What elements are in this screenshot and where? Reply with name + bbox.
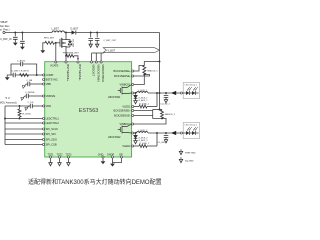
pin SPI_SDO [43, 138, 45, 140]
svg-text:BCK1SENSE-: BCK1SENSE- [114, 74, 131, 78]
diode D_BCK_2 [134, 133, 138, 138]
svg-text:SPI_SDI: SPI_SDI [46, 132, 56, 136]
junction R_LED0 tap [19, 105, 21, 107]
pin LEDCTRL1 [43, 117, 45, 119]
wire RBUCK_2 top feed [153, 109, 162, 111]
junction C_BAT_IN b [21, 32, 23, 34]
ground GND pin [101, 161, 106, 164]
junction C_BST b [96, 32, 98, 34]
transistor Q_BST channel bar [61, 38, 63, 48]
LED D2b arrows [193, 128, 197, 131]
wire RBUCK_2 stub top [161, 109, 163, 112]
junction switch node [65, 32, 67, 34]
wire PWR GND stem [180, 149, 182, 151]
wire zener bottom to source [66, 46, 70, 48]
wire GND stub [102, 158, 104, 161]
pin LBCKSW1 [132, 92, 134, 94]
wire VGATE riser [55, 43, 57, 62]
wire LED string 1 internal [183, 92, 199, 94]
pin VINBCK2 [132, 123, 134, 125]
wire GNDP+EP tie [113, 158, 122, 162]
connector arrow LED string 1 [171, 91, 176, 95]
transistor Q_BST gate bar [59, 39, 61, 47]
wire SPI_SCLK row [5, 128, 43, 130]
power ground symbol [179, 151, 182, 154]
diode D_BST [72, 30, 76, 34]
wire BCK1SENSE+ to RBUCK_1 top [134, 66, 145, 72]
svg-text:C_BST_OUT: C_BST_OUT [104, 40, 118, 42]
pin SPI_CSB [43, 143, 45, 145]
connector socket LED string 1 [180, 92, 182, 94]
junction C_BAT_IN a [14, 32, 16, 34]
junction VLED2 stub [156, 132, 158, 134]
capacitor C_LED_1 [164, 95, 169, 97]
svg-text:VGATE: VGATE [50, 65, 59, 68]
pin TST3 [67, 156, 69, 158]
wire inductor to switch node [65, 32, 72, 34]
ground arrow C_BST a [89, 44, 92, 47]
capacitor C_DRIVE [26, 94, 28, 98]
capacitor C_BST a [88, 38, 93, 40]
wire TST3 stub [67, 158, 69, 163]
resistor PRSENSE_BST [66, 54, 74, 57]
wire VBOOST pin riser [91, 53, 93, 62]
LED-String 1 box [183, 83, 199, 99]
wire VBAT bus [5, 32, 52, 34]
svg-text:LEDCTRL2: LEDCTRL2 [46, 121, 60, 125]
wire LEDCTRL2 row [5, 122, 43, 124]
svg-text:Pol. Prot.): Pol. Prot.) [0, 28, 10, 32]
svg-text:R_AUX_2: R_AUX_2 [139, 139, 149, 142]
svg-text:SPI_CSB: SPI_CSB [46, 143, 57, 147]
wire TST1 stub [50, 158, 52, 163]
capacitor C_BST b [95, 38, 100, 40]
wire cap a to ground [14, 39, 16, 42]
pin VDRIVE [43, 95, 45, 97]
wire C_BST2 branch left [11, 64, 21, 75]
wire RBUCK_2 bottom to VINBCK2 [134, 118, 166, 124]
svg-text:V_BST: V_BST [108, 50, 116, 53]
svg-text:C_BST1: C_BST1 [12, 71, 21, 73]
svg-text:RPG_BST: RPG_BST [44, 38, 55, 40]
test point arrow TST2 [58, 163, 61, 166]
svg-text:BCK2SENSE+: BCK2SENSE+ [114, 109, 132, 113]
test point arrow TST3 [67, 163, 70, 166]
transistor Q_BST body stub [62, 42, 66, 44]
wire LED string 2 internal [183, 132, 199, 134]
wire cap b to ground [21, 43, 23, 46]
wire connector 2 tail [176, 132, 180, 134]
ground input cap a [13, 43, 18, 46]
wire VLED1 pin to resistor [134, 106, 139, 108]
ground COMP network [5, 77, 10, 80]
pin BCK1SENSE- [132, 75, 134, 77]
wire gate node to gate [56, 42, 60, 44]
pin VBOOSTBCK [100, 61, 102, 63]
wire LEDCTRL1 row [5, 118, 43, 120]
svg-text:VBAT: VBAT [0, 20, 8, 24]
wire LED2 feed [148, 132, 171, 134]
pin BCK2SENSE+ [132, 109, 134, 111]
junction bus LEDCTRL1 [4, 118, 6, 120]
svg-text:VDD: VDD [46, 104, 52, 108]
net flag V_BST [103, 48, 159, 53]
capacitor C_BAT_IN a [13, 37, 18, 39]
junction COMP parallel [36, 74, 38, 76]
svg-text:VBB: VBB [46, 82, 51, 86]
wire C_BST a lead [90, 33, 92, 38]
pin VLED2 [132, 145, 134, 147]
wire SPI_CSB row [5, 144, 43, 146]
arrow into BSTSENSE- [77, 58, 79, 60]
pin VBOOSTMIN [95, 61, 97, 63]
ground arrow VBB diag [24, 84, 26, 86]
junction VLED1 stub [156, 92, 158, 94]
ground arrow VDD diag [27, 106, 29, 108]
LED D2a [186, 131, 189, 135]
wire C_BST a to ground [90, 40, 92, 44]
inductor L_BCK_2 [137, 132, 149, 133]
pin BCK2SENSE- [132, 114, 134, 116]
wire BCK2SENSE- wire [134, 115, 153, 117]
wire C_LED_2 to ground [165, 137, 167, 139]
capacitor C_BB [28, 82, 30, 86]
pin TST2 [58, 156, 60, 158]
pin VBB [43, 83, 45, 85]
junction rail RBUCK_2 [159, 109, 161, 111]
wire COMP row right [15, 74, 42, 76]
svg-text:C_DRIVE: C_DRIVE [25, 92, 35, 94]
wire 5V to VDD row [5, 105, 30, 107]
wire RBUCK_1 feed from rail [144, 62, 159, 66]
wire LBCKSW1 pin to inductor [134, 92, 137, 94]
LED D1b arrows [193, 88, 197, 91]
svg-text:C1_LED_1: C1_LED_1 [160, 103, 171, 105]
ground arrow C_LED_2 [164, 140, 167, 143]
wire 5V bus vertical [4, 106, 6, 145]
svg-text:COMP: COMP [46, 73, 54, 77]
transistor Q_BST drain stub [62, 33, 66, 40]
input terminal [3, 31, 5, 33]
wire Sig GND stem [180, 157, 182, 159]
ground arrow C_BST b [96, 44, 99, 47]
svg-text:SPI_SCLK: SPI_SCLK [46, 127, 59, 131]
LED D1a arrows [187, 88, 191, 91]
wire C_BST b lead [96, 33, 98, 38]
wire LED1 feed [148, 92, 171, 94]
wire cap C_BAT_IN b lead [21, 33, 23, 41]
wire VBB cap stub [26, 83, 28, 85]
svg-text:适配得新和TANK300系马大灯随动转向DEMO配置: 适配得新和TANK300系马大灯随动转向DEMO配置 [28, 178, 162, 186]
inductor L_BST [52, 31, 64, 33]
junction rail RBUCK_1 [159, 61, 161, 63]
svg-text:VDRIVE: VDRIVE [46, 94, 56, 98]
connector arrow LED string 2 [171, 131, 176, 135]
pin LBCKSW2 [132, 132, 134, 134]
LED D1a [186, 91, 189, 95]
pin VLED1 [132, 105, 134, 107]
svg-text:LED-String 1: LED-String 1 [185, 84, 198, 87]
LED D2a arrows [187, 128, 191, 131]
wire COMP row left [11, 74, 13, 76]
capacitor C_BAT_IN b [20, 41, 25, 43]
inductor L_BCK_1 [137, 92, 149, 93]
capacitor C_DD [30, 104, 32, 108]
capacitor C_LED_2 [164, 135, 169, 137]
ground arrow D_BCK_2 [134, 141, 137, 144]
wire R_LED0 top stub [19, 106, 21, 109]
pin LEDCTRL2 [43, 122, 45, 124]
wire VDRIVE cap stub [25, 95, 27, 97]
svg-text:PRSENSE_BST: PRSENSE_BST [63, 53, 80, 55]
ground RPG_BST [40, 50, 45, 53]
wire BCK1SENSE- to RBUCK_1 bottom [134, 75, 150, 77]
diode D_BCK_1 [134, 93, 138, 98]
wire sense link to flag [92, 52, 104, 54]
svg-text:EST563: EST563 [79, 108, 98, 114]
wire RBUCK_2 loop left [153, 111, 162, 119]
svg-text:C1_LED_2: C1_LED_2 [158, 142, 169, 144]
svg-text:LBCKSW1: LBCKSW1 [108, 95, 121, 99]
test point arrow TST1 [49, 163, 52, 166]
svg-text:LBCKSW2: LBCKSW2 [108, 135, 121, 139]
wire R_LED0 bottom stub [19, 117, 21, 119]
capacitor C_BST1 [13, 73, 15, 77]
resistor R_VLED_2 [139, 145, 147, 148]
pin VDD [43, 105, 45, 107]
junction C_LED_1 [165, 92, 167, 94]
pin EP [120, 156, 122, 158]
junction R_LED0 bottom [19, 118, 21, 120]
junction D_BCK_1 [135, 92, 137, 94]
svg-text:C_BST2: C_BST2 [17, 60, 26, 62]
wire C_BST2 branch right [23, 64, 37, 75]
svg-text:VLED1: VLED1 [122, 105, 131, 109]
svg-text:RBUCK_2: RBUCK_2 [165, 114, 176, 116]
pin VGATE [55, 61, 57, 63]
ground arrow D_BCK_1 [134, 101, 137, 104]
svg-text:R_AUX_1: R_AUX_1 [139, 99, 149, 102]
svg-text:(MCU Assumed): (MCU Assumed) [0, 101, 17, 104]
pin TST1 [49, 156, 51, 158]
wire RBUCK_1 bottom to VINBCK1 [134, 75, 145, 85]
ground arrow C_LED_1 [164, 100, 167, 103]
wire RPG_BST left to ground [43, 43, 45, 50]
wire VBB row [30, 83, 43, 85]
wire VDRIVE row [28, 95, 42, 97]
svg-text:L_BST: L_BST [52, 27, 60, 30]
junction RBUCK_1 bottom [143, 74, 145, 76]
wire VBOOSTMIN pin riser [95, 53, 97, 62]
pin GND [102, 156, 104, 158]
diode D_BCK_1 bar [134, 99, 138, 101]
ground arrow VDRIVE diag [23, 96, 25, 98]
wire SPI_SDI row [5, 133, 43, 135]
svg-text:BSTSENSE+: BSTSENSE+ [66, 64, 70, 81]
wire VBOOSTBCK pin riser [100, 53, 102, 62]
signal ground symbol [179, 159, 182, 162]
wire C_BST b to ground [96, 40, 98, 44]
svg-text:Sig GND: Sig GND [185, 161, 194, 163]
svg-text:SPI_SDO: SPI_SDO [46, 138, 57, 142]
svg-text:C_BAT_IN: C_BAT_IN [0, 38, 12, 41]
wire GNDP ground stem [112, 163, 114, 164]
svg-text:BCK1SENSE+: BCK1SENSE+ [114, 69, 132, 73]
svg-text:PWR GND: PWR GND [185, 153, 196, 155]
internal buck switch 1 [118, 85, 132, 95]
svg-text:BCK2SENSE-: BCK2SENSE- [114, 114, 131, 118]
wire C_LED_2 lead [165, 133, 167, 134]
junction rail LED1 crossing [159, 92, 161, 94]
pin SPI_SCLK [43, 128, 45, 130]
wire source down to BSTSENSE+ [65, 49, 67, 63]
ground GNDP [110, 164, 115, 167]
wire VLED2 pin to resistor [134, 145, 139, 147]
LED D1b [192, 91, 195, 95]
wire VLED2 sense stub [156, 133, 158, 146]
svg-text:BSTSYNC: BSTSYNC [46, 78, 58, 82]
svg-text:VBOOSTBCK: VBOOSTBCK [101, 64, 105, 82]
wire COMP to ground [7, 75, 11, 77]
junction gate node [55, 42, 57, 44]
wire sense to BSTSENSE- [74, 56, 78, 59]
wire C_LED_1 to ground [165, 97, 167, 99]
wire connector 1 tail [176, 92, 180, 94]
svg-text:RBUCK_1: RBUCK_1 [148, 70, 159, 72]
wire diode to VBOOST rail [76, 32, 160, 34]
wire resistor to VLED2 stub [147, 145, 157, 147]
svg-text:VBOOST: VBOOST [92, 64, 96, 76]
pin BSTSENSE+ [65, 61, 67, 63]
wire C_LED_1 lead [165, 93, 167, 94]
wire VLED1 sense stub [156, 93, 158, 107]
wire resistor to VLED1 stub [147, 106, 157, 108]
ground input cap b [20, 47, 25, 50]
pin COMP [43, 74, 45, 76]
wire TST2 stub [59, 158, 61, 163]
svg-text:R_BST1: R_BST1 [21, 71, 30, 73]
wire BCK2SENSE+ wire [134, 110, 153, 111]
junction D_BCK_2 [135, 132, 137, 134]
resistor R_LED0 [18, 109, 21, 117]
pin VBOOST [91, 61, 93, 63]
junction C_LED_2 [165, 132, 167, 134]
LED-String 2 box [183, 123, 199, 139]
svg-text:R_LED0: R_LED0 [23, 114, 32, 116]
svg-text:VBOOSTMIN: VBOOSTMIN [96, 64, 100, 81]
junction RBUCK_2 bottom [161, 117, 163, 119]
junction C_BST a [90, 32, 92, 34]
pin BCK1SENSE+ [132, 70, 134, 72]
svg-text:D_BST: D_BST [71, 27, 79, 30]
pin VINBCK1 [132, 83, 134, 85]
svg-text:C_DD: C_DD [28, 102, 34, 104]
resistor RPG_BST [45, 41, 54, 44]
op-amp U1 IC body EST563 [45, 62, 132, 157]
pin BSTSYNC [43, 78, 45, 80]
wire VDD row [32, 105, 42, 107]
svg-text:5 V: 5 V [6, 96, 10, 100]
capacitor C_BST2 [21, 62, 23, 66]
wire LBCKSW2 pin to inductor [134, 132, 137, 134]
svg-text:(after Rev.: (after Rev. [0, 24, 10, 28]
resistor R_VLED_1 [139, 105, 147, 108]
internal buck switch 2 [118, 124, 132, 134]
svg-text:LED-String 2: LED-String 2 [185, 124, 198, 127]
resistor RBUCK_1 [143, 66, 146, 75]
LED D2b [192, 131, 195, 135]
diode DZ_BST gate zener [66, 40, 72, 47]
diode D_BCK_2 bar [134, 139, 138, 141]
resistor R_BST1 [20, 74, 29, 77]
svg-text:VLED2: VLED2 [122, 144, 131, 148]
wire SPI_SDO row [5, 139, 43, 141]
wire VBOOST rail vertical [159, 33, 161, 110]
pin BSTSENSE- [77, 61, 79, 63]
transistor Q_BST arrow [63, 42, 66, 44]
svg-text:DZ_BST: DZ_BST [71, 40, 73, 48]
wire cap C_BAT_IN a lead [14, 33, 16, 37]
wire VDD cap stub [29, 105, 31, 107]
svg-text:LEDCTRL1: LEDCTRL1 [46, 117, 60, 121]
pin GNDP [111, 156, 113, 158]
svg-text:BSTSENSE-: BSTSENSE- [78, 64, 82, 80]
svg-text:C_BB: C_BB [27, 80, 33, 82]
transistor Q_BST source stub [62, 46, 66, 48]
pin SPI_SDI [43, 133, 45, 135]
junction source sense [65, 55, 67, 57]
connector socket LED string 2 [180, 132, 182, 134]
resistor RBUCK_2 [161, 110, 164, 118]
